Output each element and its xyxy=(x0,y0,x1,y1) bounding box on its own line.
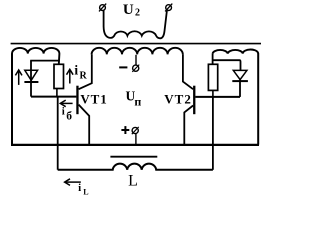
svg-text:R: R xyxy=(80,70,88,81)
svg-text:VT1: VT1 xyxy=(80,91,107,106)
svg-text:U: U xyxy=(123,2,134,18)
svg-text:L: L xyxy=(83,188,88,197)
svg-text:VT2: VT2 xyxy=(164,92,192,107)
svg-text:L: L xyxy=(128,172,138,189)
svg-text:i: i xyxy=(78,182,81,194)
svg-text:2: 2 xyxy=(135,8,140,19)
svg-text:i: i xyxy=(74,62,78,77)
svg-text:п: п xyxy=(134,95,141,109)
svg-text:б: б xyxy=(66,111,72,123)
svg-text:i: i xyxy=(62,105,65,117)
